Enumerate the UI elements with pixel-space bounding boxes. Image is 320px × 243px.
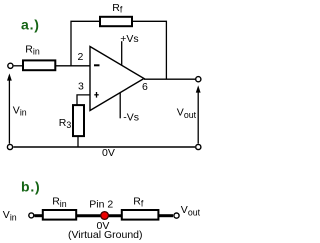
- thick wire: Rf to output terminal (b): [158, 214, 174, 217]
- wire: Rin to pin 2: [55, 65, 90, 67]
- resistor Rf: [100, 17, 132, 26]
- svg-text:6: 6: [142, 81, 148, 93]
- ground terminal left: [7, 144, 12, 149]
- +Vs supply wire: [121, 41, 123, 65]
- resistor Rin (b): [43, 210, 76, 220]
- -Vs supply wire: [119, 93, 121, 119]
- svg-text:a.): a.): [21, 16, 40, 32]
- svg-text:b.): b.): [21, 178, 41, 194]
- output wire pin 6 to terminal: [144, 78, 196, 80]
- svg-text:Pin 2: Pin 2: [89, 198, 113, 210]
- thick wire: input terminal to Rin (b): [34, 214, 43, 217]
- resistor Rin: [23, 60, 55, 70]
- pin 3 wire: [77, 95, 90, 105]
- input terminal (b): [29, 213, 34, 218]
- wire: Rf right to output node: [132, 21, 166, 79]
- svg-text:(Virtual Ground): (Virtual Ground): [68, 229, 143, 241]
- input terminal Vin (a): [8, 63, 13, 68]
- svg-text:-Vs: -Vs: [123, 112, 139, 124]
- Vin arrow: [7, 73, 12, 143]
- svg-text:2: 2: [78, 51, 84, 63]
- op-amp U1: [90, 47, 144, 111]
- wire: feedback tap from pin 2 node up to Rf left: [71, 21, 100, 66]
- ground terminal right: [196, 144, 201, 149]
- Vout arrow: [196, 85, 201, 143]
- wire: R3 bottom to 0V rail: [77, 136, 79, 147]
- wire: input terminal to Rin: [14, 65, 23, 67]
- resistor Rf (b): [122, 210, 159, 220]
- output terminal (a): [196, 77, 201, 82]
- svg-text:3: 3: [78, 81, 84, 93]
- thick wire: Rin to virtual ground node: [75, 214, 123, 217]
- 0V rail: [13, 146, 195, 148]
- svg-text:0V: 0V: [102, 147, 115, 159]
- resistor R3: [73, 105, 84, 136]
- svg-text:Rf: Rf: [112, 2, 123, 15]
- svg-text:+Vs: +Vs: [120, 33, 138, 45]
- output terminal (b): [174, 213, 179, 218]
- virtual ground node Pin 2 (red): [101, 212, 109, 220]
